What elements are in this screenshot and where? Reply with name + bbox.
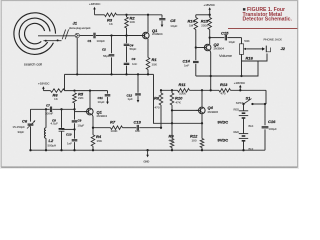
capacitor C14: [193, 61, 199, 76]
capacitor C2: [109, 36, 115, 75]
+18VDC supply (right): [234, 81, 246, 90]
phone jack J2: [262, 46, 271, 53]
wire feedback bus: [65, 73, 154, 75]
label R8: [154, 96, 160, 110]
battery B1 9V: [239, 104, 248, 134]
label R3: [107, 18, 114, 26]
label C11: [98, 96, 105, 104]
wire ground rail: [31, 149, 266, 151]
node pot return: [240, 75, 242, 77]
wire Q1 emitter: [147, 39, 149, 58]
ground symbol: [144, 150, 150, 163]
wire pot return: [242, 54, 259, 76]
caption underline: [228, 28, 297, 30]
wire Q4 base: [172, 109, 198, 111]
node gnd R4: [92, 149, 94, 151]
resistor R7: [111, 126, 123, 130]
wire C8-C9 link: [62, 128, 75, 130]
resistor R8: [159, 90, 163, 127]
resistor R10: [170, 90, 174, 123]
node gnd C10: [73, 149, 75, 151]
label R6: [53, 93, 59, 101]
label R16: [246, 56, 254, 61]
resistor R11: [178, 89, 190, 93]
node emitter return: [210, 75, 212, 77]
label R1: [152, 57, 158, 67]
label Q4: [208, 105, 219, 114]
resistor R15: [208, 15, 212, 38]
capacitor C7: [50, 107, 51, 113]
label C8: [51, 119, 59, 126]
resistor R5: [73, 93, 77, 110]
cable break symbol: [62, 30, 68, 40]
resistor R9: [170, 123, 174, 150]
label R13: [220, 82, 228, 96]
capacitor C16: [262, 104, 269, 150]
capacitor C8: [59, 109, 65, 150]
node gnd center: [146, 149, 148, 151]
label R11: [179, 82, 187, 96]
wire Q1 collector: [147, 15, 149, 33]
label R14: [188, 19, 196, 28]
wire C15: [210, 38, 242, 44]
figure caption: [243, 7, 293, 23]
node gnd C6: [29, 149, 31, 151]
label R2: [130, 16, 136, 25]
transistor Q2: [84, 108, 93, 115]
node R5 top: [73, 89, 75, 91]
node supply tee: [209, 14, 211, 16]
node gnd R12: [201, 149, 203, 151]
label C6: [22, 119, 28, 124]
wire Q2 collector: [89, 91, 91, 109]
resistor R6: [51, 89, 65, 93]
label R9: [169, 134, 175, 143]
capacitor C1: [94, 33, 95, 39]
label C6 value: [13, 125, 26, 134]
wire Q4 top: [201, 90, 203, 107]
wire R7 bus: [93, 127, 161, 129]
label R15: [201, 19, 209, 28]
label R12: [190, 134, 198, 143]
wire stage2 rail: [43, 90, 107, 92]
label C2: [102, 48, 110, 59]
node Q2 base: [73, 108, 75, 110]
node C9-C10: [73, 128, 75, 130]
label B2 RED: [234, 130, 240, 134]
wire Q3 base: [196, 47, 204, 49]
+18VDC supply (left mid): [38, 82, 50, 91]
search coil L1: [14, 13, 63, 55]
label B2 BLK: [249, 147, 254, 151]
resistor R3: [105, 13, 117, 17]
label C14: [183, 59, 191, 68]
wire tank bus: [31, 108, 75, 110]
wire Q2 base: [75, 111, 87, 113]
label C10: [66, 132, 72, 145]
label J2: [281, 46, 286, 51]
node Q3 collector: [209, 36, 211, 38]
node gnd R9: [171, 149, 173, 151]
label 9VDC lower: [218, 138, 229, 143]
capacitor C12: [135, 74, 141, 102]
label R7: [110, 120, 118, 134]
node C16 top: [264, 103, 266, 105]
wire C6 riser: [30, 109, 32, 121]
wire J1-Q1 base: [80, 35, 142, 37]
wire bus to switch: [265, 90, 267, 104]
node gnd battery: [242, 149, 244, 151]
+18VDC supply (top right): [204, 3, 216, 15]
capacitor C13: [137, 125, 138, 131]
transistor Q1: [140, 32, 149, 39]
label C9: [78, 118, 85, 127]
label C16: [268, 119, 277, 131]
label C7: [45, 104, 53, 116]
label C3: [132, 57, 138, 66]
wire bus left drop: [64, 74, 66, 90]
node C2: [110, 34, 112, 36]
+18VDC supply (top): [89, 2, 101, 15]
node R10 bus: [171, 89, 173, 91]
border frame: [1, 1, 297, 168]
node Q3 emitter bus: [210, 89, 212, 91]
label Q2: [97, 109, 108, 118]
node C3 bottom: [125, 73, 127, 75]
capacitor C11: [105, 91, 111, 105]
label S1: [246, 95, 252, 100]
label Q1: [152, 28, 163, 36]
label C1: [88, 39, 106, 43]
node R8 bus: [160, 89, 162, 91]
label phone plug and jack: [69, 27, 91, 30]
label L2: [48, 138, 57, 148]
node gnd L2: [45, 149, 47, 151]
label Volume: [219, 53, 232, 58]
resistor R1: [146, 58, 150, 75]
capacitor C15: [225, 35, 226, 41]
node base/R2: [125, 34, 127, 36]
node R2 top: [125, 14, 127, 16]
transistor Q3: [202, 44, 211, 51]
jack J1: [75, 33, 79, 37]
wire interstage: [154, 74, 203, 123]
node gnd C8: [60, 149, 62, 151]
capacitor C6 variable: [27, 120, 35, 150]
wire Q2 emitter: [91, 115, 94, 135]
label SPST: [236, 101, 244, 105]
resistor R12: [200, 123, 204, 150]
resistor R13: [219, 89, 231, 93]
node Q2 collector rail: [89, 89, 91, 91]
node C12 top: [137, 73, 139, 75]
label R10: [175, 96, 183, 105]
capacitor C3: [124, 63, 130, 74]
inductor L2: [44, 109, 46, 150]
node Q4 top bus: [201, 89, 203, 91]
label Q3: [214, 42, 225, 51]
capacitor C5: [159, 15, 165, 27]
label C5: [170, 18, 177, 28]
label C15: [221, 31, 235, 45]
transistor Q4: [196, 107, 205, 114]
label R4: [96, 134, 103, 143]
wire bias bus: [161, 89, 266, 91]
node C8 top: [60, 108, 62, 110]
capacitor C10: [72, 140, 78, 151]
capacitor C9: [72, 109, 78, 138]
battery B2 9V: [239, 134, 248, 151]
switch S1: [242, 99, 266, 106]
search coil label: [24, 63, 42, 67]
label J1: [73, 20, 78, 25]
node Q4 col: [201, 122, 203, 124]
label R16 value: [244, 39, 249, 43]
wire Q3 emitter: [209, 50, 212, 90]
wire J1 sleeve down: [76, 38, 78, 75]
node Q1 collector rail: [147, 14, 149, 16]
node R7 right: [160, 127, 162, 129]
resistor R4: [91, 135, 95, 150]
resistor R2: [125, 15, 129, 36]
potentiometer R16: [240, 44, 247, 55]
node supply bus: [239, 89, 241, 91]
wire Q3 collector: [209, 38, 211, 45]
wire top rail: [95, 14, 163, 16]
wire Q4 bottom: [201, 114, 203, 124]
node R9 top: [171, 122, 173, 124]
wire sleeve return: [196, 54, 267, 77]
label PHONE JACK: [264, 38, 283, 42]
wire wiper-J2: [247, 48, 263, 50]
label C4: [130, 44, 137, 52]
node C2 bottom: [110, 73, 112, 75]
capacitor C4: [124, 36, 130, 63]
node R1 bottom: [147, 73, 149, 75]
node Q4 base: [171, 109, 173, 111]
resistor R14: [194, 15, 198, 60]
node R7 left: [92, 127, 94, 129]
node J1 sleeve: [76, 73, 78, 75]
node L2 top: [45, 108, 47, 110]
label 9VDC upper: [218, 119, 229, 124]
label B1 BLK: [249, 124, 254, 128]
node Q3 base: [195, 46, 197, 48]
label B1 RED: [234, 107, 240, 111]
label C12: [127, 94, 133, 102]
wire coil-J1: [63, 35, 75, 37]
wire R14-R15 tee: [196, 14, 210, 16]
label C13: [134, 120, 142, 134]
label R5: [78, 91, 84, 100]
